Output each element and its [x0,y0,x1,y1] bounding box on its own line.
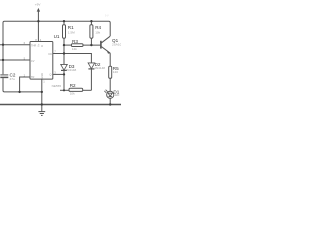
svg-text:10k: 10k [95,30,100,34]
svg-text:R4: R4 [95,25,101,30]
junction R1 top on rail [63,20,65,22]
svg-text:R3: R3 [72,39,78,44]
svg-text:DC: DC [49,52,53,56]
junction R2 left corner [63,89,65,91]
resistor R4 [90,21,92,25]
svg-text:U1: U1 [54,34,60,39]
svg-text:TR: TR [31,75,35,79]
diode D3 [63,54,65,65]
capacitor C2 [0,74,8,76]
svg-text:1.5M: 1.5M [68,30,75,34]
resistor R3 [64,44,71,46]
svg-text:120: 120 [113,70,118,74]
junction THR wire / left rail [2,44,4,46]
junction LED / bottom rail [109,103,111,105]
wire bottom ground rail [0,104,121,106]
svg-text:1: 1 [43,80,45,84]
svg-text:1N4148: 1N4148 [65,68,76,72]
svg-text:R: R [40,45,44,47]
svg-text:12k: 12k [72,47,77,51]
junction GND line / lower wire [41,91,43,93]
svg-text:47u: 47u [10,77,15,81]
svg-text:R2: R2 [70,83,76,88]
ground [41,105,43,112]
transistor Q1 [100,41,102,49]
junction R4 top on rail [90,20,92,22]
svg-text:+9V: +9V [35,3,42,7]
resistor R1 [63,21,65,25]
wire GND pin1 down [41,79,43,104]
svg-text:1N4148: 1N4148 [94,66,105,70]
junction DIS wire / R1 [63,52,65,54]
svg-text:9 V: 9 V [105,14,109,17]
svg-text:NE555: NE555 [52,84,62,88]
junction CV wire / left rail [2,59,4,61]
op-amp U1 555 timer box [30,42,53,80]
svg-text:LED: LED [113,93,120,97]
wire THR pin6 to left edge [0,44,30,46]
labels [10,3,126,98]
wire top rail V+ with left drop and right drop to Q1 collector [3,21,110,74]
svg-text:CV: CV [31,59,35,63]
svg-text:GND: GND [40,73,44,79]
svg-text:2SA1015: 2SA1015 [112,43,121,47]
node B R4-base junction [90,44,92,46]
junction OUT wire / D3 [63,73,65,75]
svg-text:10k: 10k [70,92,75,96]
svg-text:Q: Q [49,73,51,77]
node A R1-R3 junction [63,44,65,46]
power symbol +9V arrow [37,11,39,21]
resistor R2 [60,89,69,91]
resistor R5 [109,66,112,78]
svg-text:R1: R1 [68,25,74,30]
wire TR pin2 to bottom wire [20,77,30,92]
junction GND line / bottom rail [41,103,43,105]
wire OUT pin3 [53,73,64,75]
wire CV pin5 to left edge [0,59,30,61]
svg-text:3: 3 [54,70,56,74]
svg-text:THR: THR [31,43,36,47]
diode D2 [88,63,95,69]
svg-text:V+: V+ [37,43,41,47]
junction TR drop on lower wire [18,91,20,93]
junction V+ stub on rail [37,20,39,22]
wire C2 bottom to ground rail corner [3,78,42,92]
LED D1 [107,91,114,98]
wire V+ pin8/4 stub [37,21,39,41]
wire DIS pin7 to D2 top [53,54,92,63]
